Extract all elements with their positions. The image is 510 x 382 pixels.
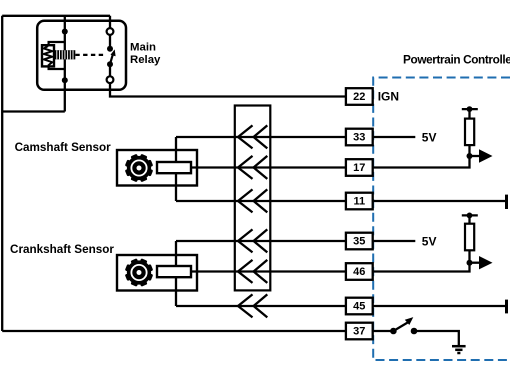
pin 45: [346, 298, 373, 315]
svg-text:35: 35: [353, 235, 365, 247]
pin 33: [346, 129, 373, 146]
switch S1 arm: [393, 322, 408, 331]
terminator bar pin 11: [505, 195, 508, 209]
svg-text:Powertrain Controller: Powertrain Controller: [403, 53, 510, 67]
ground: [452, 345, 466, 348]
relay coil zigzag: [44, 46, 52, 66]
twisted pair chevrons row 11: [238, 189, 267, 212]
twisted pair chevrons row 46: [238, 260, 267, 283]
wire: crankshaft sensor return lead (row 45): [176, 305, 346, 307]
relay coil core box: [42, 45, 54, 66]
wire: pin 11 termination: [373, 200, 507, 202]
wire: bottom ground run to pin 37: [2, 330, 346, 332]
harness shield box: [235, 106, 270, 291]
wire: pin 35 to 5V: [373, 240, 416, 242]
relay terminal circles: [107, 28, 114, 35]
crankshaft sensor body: [117, 255, 197, 291]
wire: relay coil branch vertical: [64, 16, 66, 112]
relay switch arm: [110, 54, 113, 64]
svg-text:37: 37: [353, 325, 365, 337]
pin 35: [346, 233, 373, 250]
camshaft sensor element: [157, 162, 191, 173]
crankshaft sensor gear: [125, 258, 153, 286]
svg-text:45: 45: [353, 300, 365, 312]
twisted pair chevrons row 17: [238, 156, 267, 179]
svg-text:11: 11: [353, 195, 365, 207]
relay solenoid winding: [54, 50, 75, 59]
node: R2 output junction: [467, 260, 473, 266]
pin 11: [346, 193, 373, 210]
wire: left vertical rail: [1, 16, 3, 331]
wire: camshaft sensor loop vertical: [175, 137, 177, 201]
svg-text:46: 46: [353, 266, 365, 278]
camshaft sensor body: [117, 150, 197, 186]
wire: pin 37 to switch: [373, 330, 394, 332]
pin 22: [346, 88, 373, 105]
svg-text:17: 17: [353, 162, 365, 174]
wire: pin 46 to comparator node: [373, 263, 470, 272]
svg-text:5V: 5V: [422, 235, 437, 249]
wire: pin 33 to 5V: [373, 136, 416, 138]
svg-text:Camshaft Sensor: Camshaft Sensor: [15, 141, 112, 154]
relay coil junction dots: [62, 29, 68, 35]
pin 37: [346, 323, 373, 340]
pin 17: [346, 159, 373, 176]
relay switch contact dots: [107, 46, 113, 52]
wire: top supply rail: [2, 15, 110, 17]
wire: relay coil return: [2, 110, 65, 112]
twisted pair chevrons row 33: [238, 125, 267, 148]
node: controller boundary (dashed): [373, 78, 510, 361]
wire: crankshaft sensor loop vertical: [175, 241, 177, 306]
wire: switch to ground: [414, 331, 459, 346]
relay coil bracket: [49, 42, 65, 69]
svg-text:Crankshaft Sensor: Crankshaft Sensor: [10, 243, 114, 256]
relay actuation dashed link: [75, 54, 104, 56]
wire: pin 45 termination: [373, 305, 507, 307]
resistor R2 pull-up: [462, 215, 478, 262]
svg-text:33: 33: [353, 131, 365, 143]
pin 46: [346, 263, 373, 280]
signal arrow pin 46: [470, 262, 480, 264]
wire: pin 17 to comparator node: [373, 156, 470, 168]
resistor R1 pull-up: [462, 109, 478, 156]
node: R1 output junction: [467, 153, 473, 159]
wire: camshaft sensor signal lead (row 17): [191, 166, 346, 168]
relay K1 outline: [37, 21, 126, 90]
twisted pair chevrons row 45: [238, 294, 267, 317]
wire: camshaft sensor return lead (row 11): [176, 200, 346, 202]
signal arrow pin 17: [470, 155, 480, 157]
crankshaft sensor element: [157, 266, 191, 277]
twisted pair chevrons row 35: [238, 229, 267, 252]
svg-text:Main: Main: [130, 41, 156, 53]
svg-text:Relay: Relay: [130, 54, 161, 66]
wire: camshaft sensor plus lead (row 33): [176, 136, 346, 138]
svg-text:5V: 5V: [422, 131, 437, 145]
switch S1 contacts: [390, 328, 397, 335]
wire: relay switch branch and run to pin 22: [110, 16, 346, 97]
svg-text:IGN: IGN: [378, 90, 399, 104]
wire: crankshaft sensor signal lead (row 46): [191, 270, 346, 272]
svg-text:22: 22: [353, 91, 365, 103]
terminator bar pin 45: [505, 300, 508, 314]
camshaft sensor gear: [125, 154, 153, 182]
wire: crankshaft sensor plus lead (row 35): [176, 240, 346, 242]
